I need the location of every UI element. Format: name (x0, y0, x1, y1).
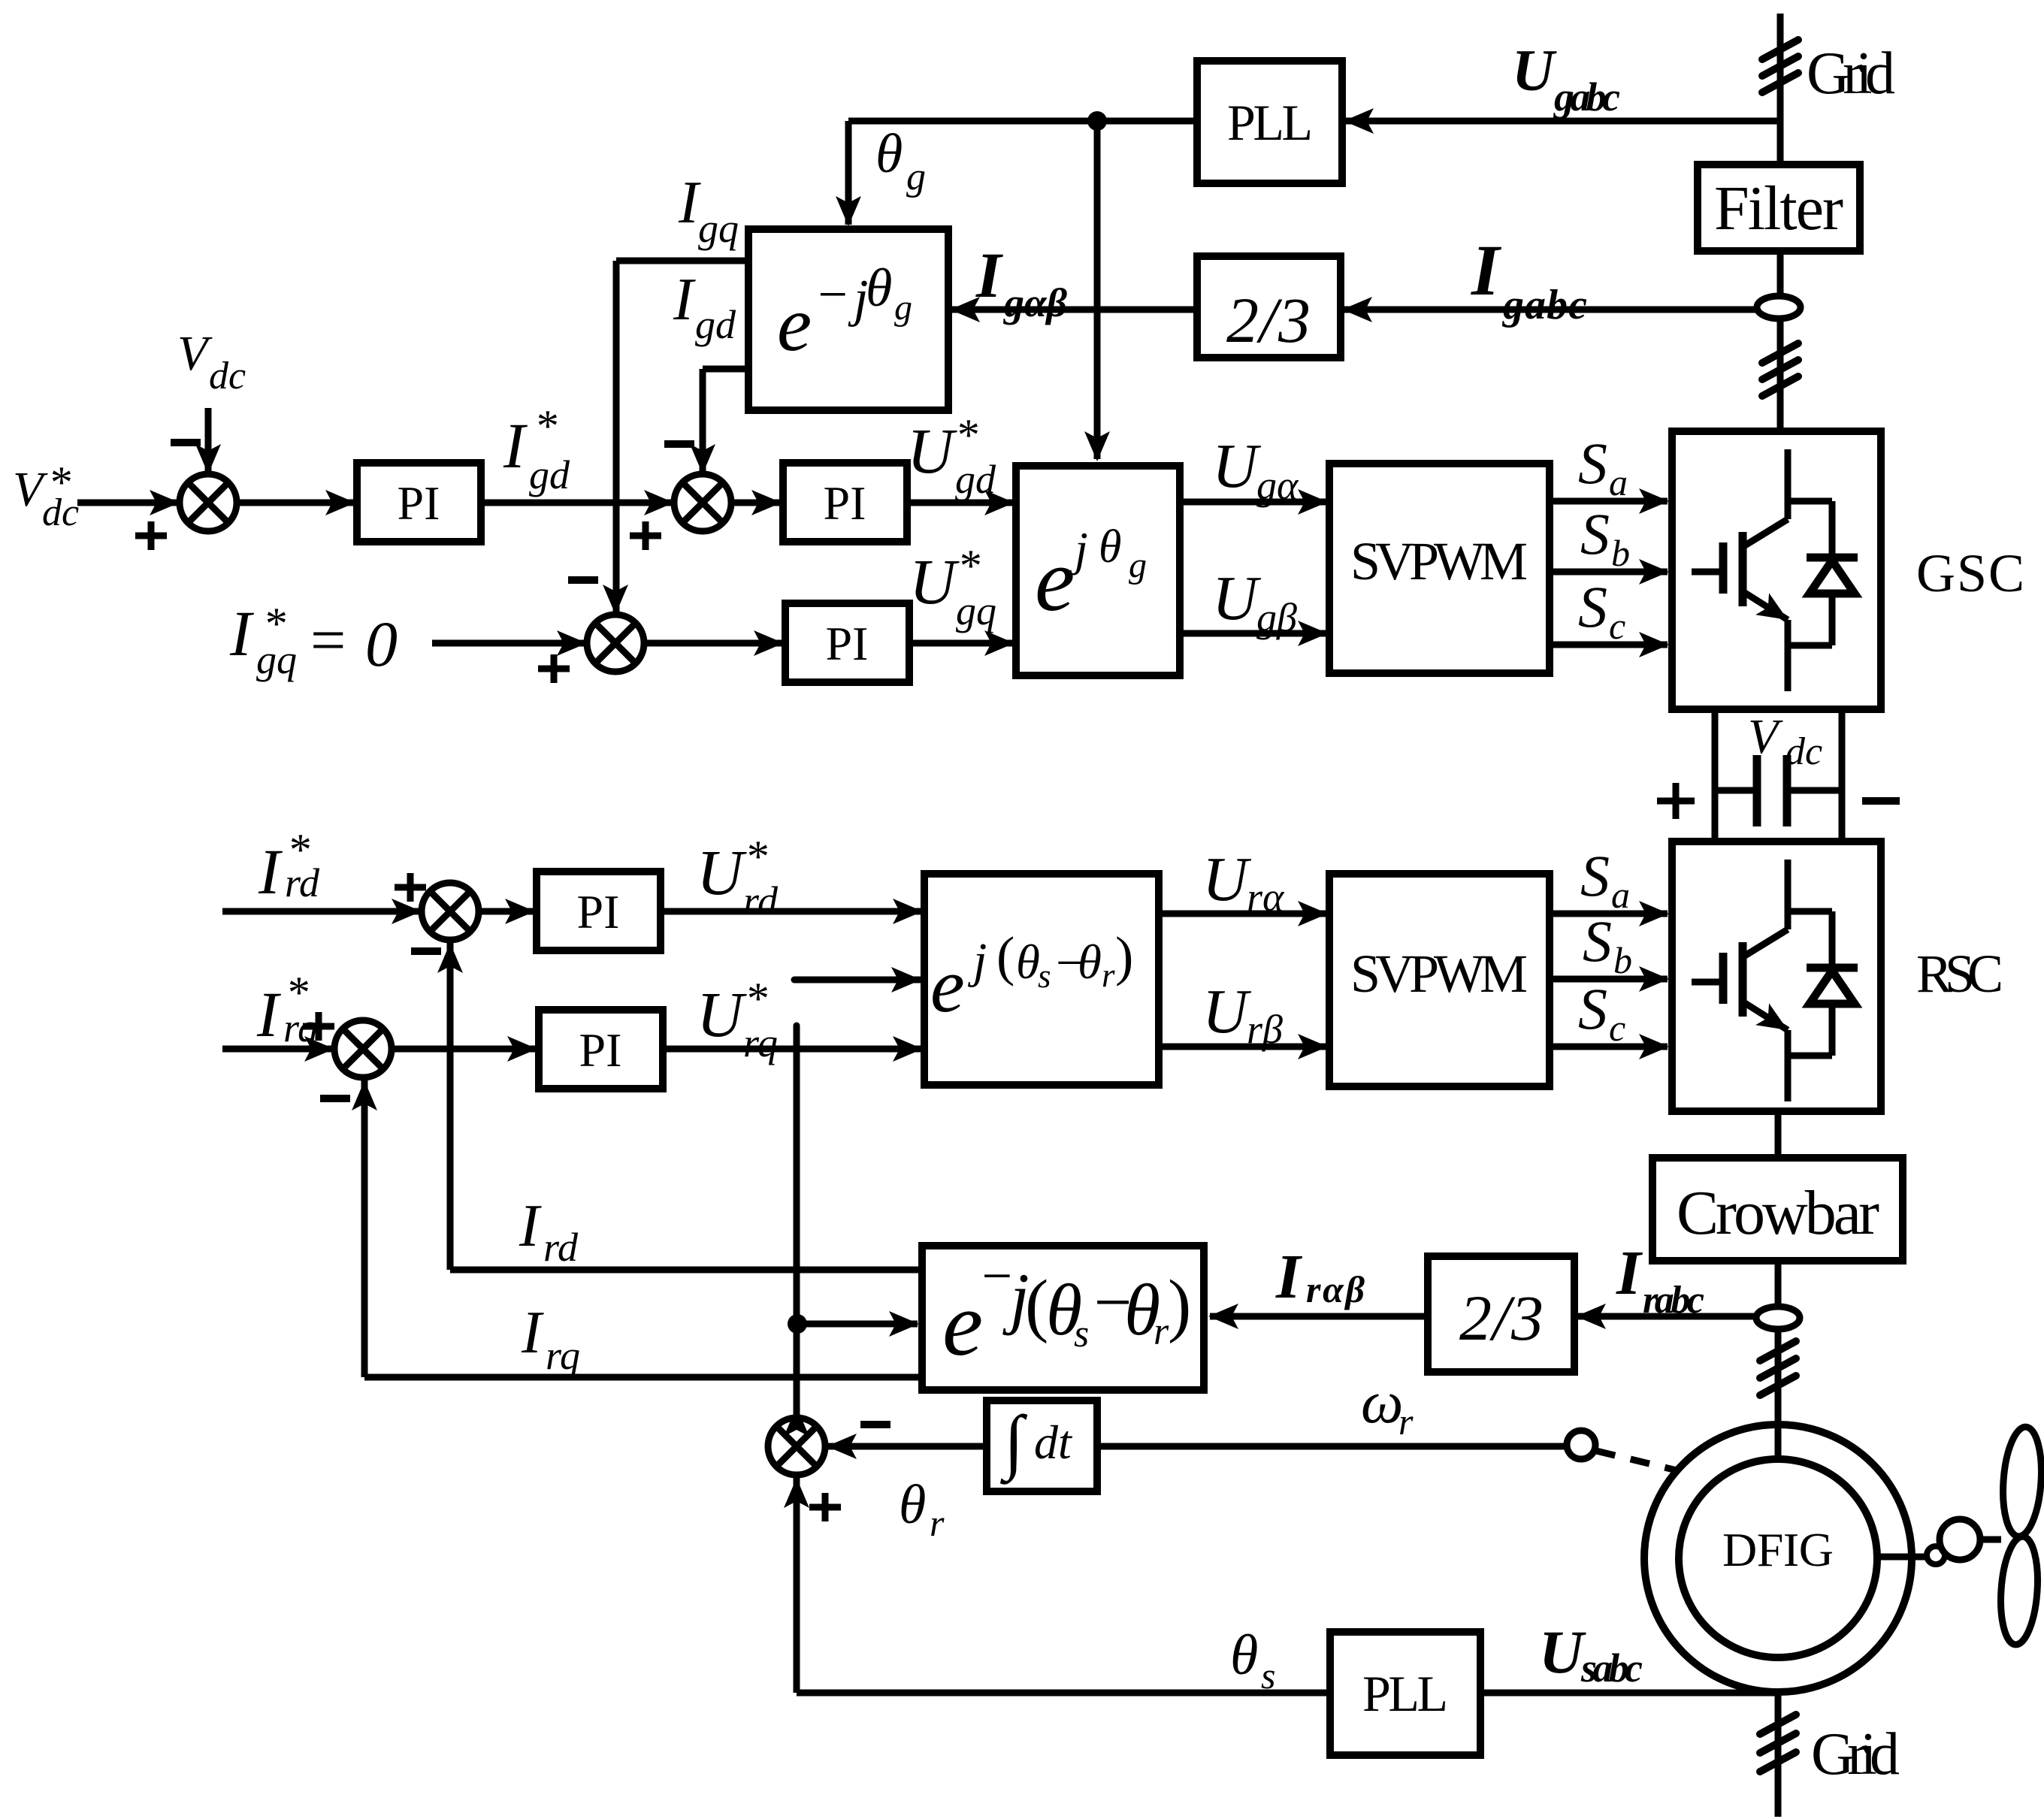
svg-text:PI: PI (577, 885, 620, 938)
wire theta_r from integrator (828, 1443, 984, 1450)
svg-text:θ: θ (875, 123, 903, 185)
arrowhead I_gq into summer (603, 585, 628, 615)
svg-text:U: U (697, 836, 747, 908)
block integrator dt (987, 1401, 1097, 1491)
svg-text:SVPWM: SVPWM (1350, 944, 1528, 1004)
three-phase slashes bottom grid (1760, 1715, 1796, 1734)
arrowhead Sa RSC (1639, 901, 1669, 926)
wire rd summer to PI4 (477, 908, 534, 915)
wire U*_rq to e^j(theta_s-theta_r) (663, 1046, 921, 1053)
svg-text:(: ( (1025, 1266, 1048, 1344)
wire U*_gd to e^jtheta_g (907, 500, 1013, 506)
block SVPWM (GSC) (1329, 464, 1550, 673)
transistor IGBT with diode (GSC) (1692, 449, 1858, 691)
minus sign theta_r (860, 1421, 890, 1428)
svg-text:b: b (1611, 532, 1630, 574)
svg-text:=: = (310, 606, 346, 675)
wire DC link right (1839, 709, 1846, 842)
arrowhead theta_g into e^-jtheta_g (836, 196, 861, 226)
plus sign at V summer (135, 521, 167, 550)
svg-text:rq: rq (546, 1333, 580, 1378)
plus sign q summer (538, 654, 570, 683)
svg-text:θ: θ (1099, 521, 1121, 573)
arrowhead into PI4 (505, 899, 535, 924)
wire I_gd stub from box (703, 366, 748, 373)
svg-text:Crowbar: Crowbar (1677, 1178, 1879, 1248)
arrowhead U_gbeta (1298, 621, 1328, 646)
svg-text:S: S (1578, 431, 1607, 496)
svg-text:S: S (1583, 908, 1612, 974)
wire Sc to RSC (1550, 1044, 1668, 1050)
wire grid bus bottom (1775, 1692, 1782, 1817)
capacitor C_dc plates (1757, 755, 1787, 826)
block e^j(theta_s-theta_r) (924, 874, 1159, 1085)
arrowhead V*_dc (150, 490, 180, 515)
svg-text:*: * (745, 832, 767, 881)
wire I_rd feedback (450, 1267, 922, 1274)
svg-text:I: I (229, 597, 254, 669)
svg-text:0: 0 (365, 608, 398, 680)
wire I_rq up to rq summer (361, 1079, 368, 1377)
block PI1 (Vdc regulator) (357, 463, 481, 542)
arrowhead theta_g into e^jtheta_g (1084, 431, 1110, 461)
block PI2 (Igd regulator) (783, 463, 907, 542)
wire I_rq feedback (364, 1374, 922, 1381)
wire PI1 to summer2 (481, 500, 673, 506)
svg-text:V: V (177, 326, 213, 381)
arrowhead theta_r into summer (827, 1434, 857, 1459)
current transducer ellipse (rotor current) (1756, 1307, 1800, 1329)
block PLL (grid) (1197, 61, 1342, 183)
wire U_ralpha (1159, 911, 1326, 917)
svg-text:PI: PI (824, 476, 866, 530)
svg-text:r: r (930, 1502, 945, 1544)
wire hub link (1980, 1536, 2001, 1543)
wire theta stub into e^-j box (797, 1321, 918, 1328)
wire U*_rd to e^j(theta_s-theta_r) (661, 908, 921, 915)
wire U_rbeta (1159, 1044, 1326, 1050)
wire theta_g down into e^-j (845, 121, 852, 225)
svg-text:*: * (955, 410, 978, 460)
svg-text:Filter: Filter (1714, 174, 1843, 243)
svg-text:RSC: RSC (1916, 944, 2003, 1004)
wire Sb to GSC (1550, 569, 1668, 576)
junction theta into e^-j (788, 1314, 807, 1334)
wire I_rabc to 2/3 (1577, 1313, 1756, 1320)
plus sign DC link (1657, 783, 1695, 819)
minus sign q summer (568, 576, 598, 584)
svg-text:dc: dc (1785, 730, 1822, 773)
svg-text:I: I (1275, 1242, 1303, 1312)
svg-text:e: e (930, 943, 965, 1029)
svg-text:U: U (909, 545, 960, 618)
svg-text:gabc: gabc (1501, 282, 1587, 328)
arrowhead U*_gd (984, 490, 1014, 515)
svg-text:PI: PI (579, 1023, 622, 1077)
speed sensor circle (1567, 1431, 1595, 1459)
wire U_galpha (1180, 499, 1326, 506)
svg-text:I: I (673, 267, 696, 333)
arrowhead I_ralphabeta (1208, 1304, 1238, 1329)
svg-text:sabc: sabc (1580, 1645, 1643, 1691)
wire summer to PI1 (237, 500, 354, 506)
wire V_dc into summer from top (205, 408, 212, 473)
current transducer ellipse (grid current) (1757, 296, 1801, 319)
svg-text:θ: θ (899, 1474, 926, 1536)
svg-text:rd: rd (743, 878, 779, 923)
svg-text:−: − (815, 266, 850, 324)
svg-text:gq: gq (956, 588, 996, 633)
svg-text:I: I (1471, 230, 1502, 310)
svg-text:PI: PI (826, 617, 869, 670)
svg-text:θ: θ (1016, 935, 1040, 990)
wire theta_s up into summer (794, 1476, 800, 1693)
summer q-axis current (587, 615, 644, 672)
wire I_gq stub from box (616, 258, 748, 264)
svg-text:gα: gα (1256, 463, 1299, 508)
block e^-j(theta_s-theta_r) (922, 1246, 1204, 1390)
svg-text:2/3: 2/3 (1226, 284, 1311, 356)
svg-text:θ: θ (1078, 935, 1102, 990)
arrowhead I_rabc (1576, 1304, 1606, 1329)
block PI3 (Igq regulator) (785, 603, 909, 682)
wire shaft DFIG to gearbox (1877, 1554, 1926, 1561)
arrowhead into 2/3 box (1342, 297, 1372, 322)
block Crowbar (1652, 1158, 1903, 1261)
svg-text:dt: dt (1034, 1416, 1073, 1469)
wire Sb to RSC (1550, 976, 1668, 983)
plus sign at summer2 (630, 521, 661, 550)
plus sign rd summer (395, 873, 426, 902)
svg-text:PLL: PLL (1227, 94, 1313, 151)
block 2/3 (rotor currents) (1428, 1256, 1574, 1372)
svg-text:a: a (1611, 874, 1630, 916)
wire q summer to PI3 (644, 640, 782, 647)
svg-text:gd: gd (695, 302, 736, 347)
block GSC converter (1672, 431, 1881, 709)
summer rd-axis current (422, 883, 479, 940)
wire I_gabc transducer to 2/3 (1344, 307, 1779, 313)
summer d-axis current (674, 474, 731, 531)
svg-text:c: c (1609, 1007, 1625, 1049)
svg-text:2/3: 2/3 (1459, 1282, 1544, 1354)
wire theta_s from PLL (797, 1690, 1330, 1697)
svg-text:gβ: gβ (1256, 595, 1297, 640)
wind turbine blade lower (1997, 1536, 2041, 1646)
svg-text:SVPWM: SVPWM (1350, 531, 1528, 591)
arrowhead into PI5 (507, 1036, 537, 1062)
wire omega_r from speed sensor (1097, 1443, 1567, 1450)
svg-text:U: U (1512, 38, 1557, 103)
svg-text:DFIG: DFIG (1722, 1523, 1834, 1576)
wire to capacitor left plate (1715, 787, 1757, 794)
svg-text:s: s (1074, 1313, 1089, 1355)
wire Sc to GSC (1550, 642, 1668, 648)
svg-text:g: g (894, 288, 912, 328)
svg-text:dc: dc (42, 491, 79, 534)
svg-text:r: r (1154, 1310, 1169, 1353)
arrowhead Sc (1639, 632, 1669, 657)
arrowhead into summer2 (644, 490, 674, 515)
arrowhead I*_rd (392, 899, 422, 924)
wire U_gabc grid to PLL (1345, 118, 1780, 125)
arrowhead I_rd into summer (437, 943, 463, 973)
block 2/3 (grid currents) (1197, 256, 1341, 358)
svg-text:b: b (1613, 939, 1632, 981)
dashed link sensor to DFIG shaft (1596, 1451, 1714, 1479)
svg-text:e: e (1035, 530, 1075, 630)
svg-text:rabc: rabc (1643, 1279, 1704, 1322)
svg-text:e: e (777, 281, 812, 367)
svg-text:r: r (1102, 956, 1115, 994)
svg-text:I: I (258, 835, 283, 908)
three-phase slashes above GSC (1762, 343, 1798, 363)
transistor IGBT with diode (RSC) (1692, 860, 1858, 1101)
svg-text:rq: rq (743, 1020, 778, 1065)
wire Crowbar to DFIG rotor (1775, 1261, 1782, 1459)
svg-text:c: c (1609, 605, 1625, 647)
svg-text:gabc: gabc (1553, 74, 1620, 119)
wire theta angle stub into e^j(theta_s-theta_r) (794, 977, 920, 984)
svg-text:V: V (1748, 709, 1783, 764)
wire I_gq down to q summer (613, 261, 620, 613)
wire U*_gq to e^jtheta_g (909, 640, 1013, 647)
svg-text:rβ: rβ (1247, 1007, 1283, 1052)
svg-text:U: U (1539, 1618, 1586, 1686)
arrowhead theta_s into summer (784, 1478, 809, 1508)
svg-text:I: I (519, 1193, 542, 1259)
arrowhead U*_rd (893, 899, 923, 924)
block PLL (stator) (1330, 1632, 1480, 1755)
arrowhead Sb RSC (1639, 966, 1669, 992)
gearbox large circle (1940, 1519, 1980, 1560)
wire DC link left (1712, 709, 1719, 842)
arrowhead U_ralpha (1298, 901, 1328, 926)
arrowhead theta into e^j (891, 967, 921, 993)
block e^jtheta_g (inverse park grid) (1016, 466, 1180, 675)
wire grid bus top (to GSC) (1777, 14, 1784, 431)
minus sign V_dc (171, 439, 201, 446)
wire rq summer to PI5 (392, 1046, 536, 1053)
arrowhead U_rbeta (1298, 1034, 1328, 1059)
svg-text:rαβ: rαβ (1306, 1268, 1365, 1310)
arrowhead into PI2 (751, 490, 782, 515)
wire I*_rq into rq summer (222, 1046, 333, 1053)
wire U_gbeta (1180, 630, 1326, 637)
wire Sa to RSC (1550, 911, 1668, 917)
arrowhead V_dc (195, 444, 221, 474)
svg-text:I: I (521, 1300, 544, 1366)
svg-text:r: r (1398, 1401, 1414, 1443)
arrowhead U*_rq (893, 1036, 923, 1062)
machine DFIG rotor circle (1679, 1459, 1877, 1657)
block SVPWM (RSC) (1329, 874, 1550, 1086)
minus sign DC link (1862, 797, 1900, 805)
minus sign rd summer (411, 947, 441, 955)
svg-text:θ: θ (1230, 1624, 1258, 1687)
arrowhead I*_rq (304, 1036, 334, 1062)
svg-text:*: * (534, 401, 557, 451)
minus sign at summer2 (664, 440, 694, 448)
svg-text:U: U (1212, 564, 1262, 633)
block PI4 (Ird regulator) (537, 872, 661, 950)
svg-text:gq: gq (698, 206, 739, 251)
svg-text:s: s (1038, 957, 1051, 995)
summer V_dc loop (180, 474, 237, 531)
svg-text:I: I (256, 978, 281, 1050)
svg-text:rd: rd (543, 1225, 579, 1270)
svg-text:dc: dc (209, 355, 246, 397)
block RSC converter (1672, 842, 1881, 1111)
wire U_sabc to PLL (1483, 1690, 1778, 1697)
wire I_gd down to d summer (700, 369, 706, 473)
summer rq-axis current (334, 1020, 392, 1077)
svg-text:U: U (1202, 845, 1252, 914)
arrowhead I_galphabeta (950, 297, 980, 322)
svg-text:g: g (906, 156, 926, 198)
wire V*_dc into summer (77, 500, 178, 506)
svg-text:θ: θ (866, 258, 892, 318)
arrowhead Sc RSC (1639, 1034, 1669, 1059)
arrowhead direction up on theta line (784, 1407, 809, 1437)
svg-text:): ) (1168, 1266, 1191, 1344)
three-phase slashes top grid (1762, 40, 1798, 59)
svg-text:rα: rα (1247, 875, 1285, 920)
svg-text:S: S (1580, 501, 1610, 567)
three-phase slashes rotor (1760, 1341, 1796, 1361)
wire theta_g from PLL to corner (848, 118, 1197, 125)
wire summer2 to PI2 (731, 500, 780, 506)
wire RSC to Crowbar (1775, 1111, 1782, 1158)
svg-text:rd: rd (285, 860, 320, 905)
arrowhead I*_gq (557, 630, 587, 656)
arrowhead into PI3 (754, 630, 784, 656)
arrowhead U_galpha (1298, 489, 1328, 515)
machine DFIG stator circle (1644, 1425, 1912, 1692)
wire I*_gq into q summer (432, 640, 585, 647)
svg-text:U: U (907, 415, 957, 487)
gearbox small circle (1927, 1546, 1945, 1564)
svg-text:Grid: Grid (1807, 41, 1895, 107)
wind turbine blade upper (2000, 1425, 2044, 1537)
wire I_ralphabeta to e^-j (1210, 1313, 1428, 1320)
svg-text:U: U (697, 978, 747, 1050)
arrowhead into PLL (1344, 108, 1374, 134)
svg-text:S: S (1578, 976, 1607, 1041)
svg-text:I: I (975, 239, 1003, 311)
arrowhead U*_gq (984, 630, 1014, 656)
arrowhead into PI1 (325, 490, 355, 515)
svg-text:GSC: GSC (1916, 543, 2024, 603)
arrowhead I_rq into summer (352, 1080, 377, 1110)
svg-text:s: s (1261, 1654, 1275, 1697)
svg-text:a: a (1609, 461, 1628, 503)
svg-text:g: g (1129, 545, 1147, 585)
arrowhead Sa (1639, 488, 1669, 514)
svg-text:U: U (1212, 431, 1262, 501)
svg-text:gq: gq (256, 637, 297, 682)
svg-text:gd: gd (529, 452, 570, 497)
rotor wire re-draw over circles (1775, 1425, 1782, 1459)
wire I_galphabeta 2/3 to e^-j (951, 307, 1197, 313)
wire I_rd up to rd summer (447, 941, 454, 1270)
block Filter (1698, 165, 1860, 251)
wire I*_rd into rd summer (222, 908, 420, 915)
svg-text:*: * (957, 541, 980, 591)
wire theta_s-theta_r vertical from summer (794, 1026, 800, 1418)
svg-text:U: U (1202, 977, 1252, 1047)
svg-text:S: S (1578, 574, 1607, 639)
svg-text:ω: ω (1361, 1370, 1403, 1436)
svg-text:*: * (745, 974, 767, 1023)
block e^-jtheta_g (park transform grid) (748, 229, 948, 410)
minus sign rq summer (320, 1095, 350, 1102)
wire theta_g down into e^+j (1094, 121, 1101, 459)
svg-text:(: ( (996, 926, 1014, 987)
svg-text:e: e (942, 1274, 983, 1375)
svg-text:Grid: Grid (1811, 1721, 1900, 1787)
plus sign theta_s (809, 1493, 841, 1521)
svg-text:S: S (1580, 843, 1610, 908)
plus sign rq summer (303, 1012, 334, 1041)
svg-text:PLL: PLL (1362, 1665, 1448, 1722)
svg-text:I: I (503, 409, 528, 482)
svg-text:): ) (1115, 926, 1133, 987)
arrowhead Sb (1639, 559, 1669, 585)
wire to capacitor right plate (1787, 787, 1842, 794)
block PI5 (Irq regulator) (539, 1010, 663, 1089)
svg-text:PI: PI (398, 476, 440, 530)
wire Sa to GSC (1550, 498, 1668, 505)
svg-text:I: I (1616, 1238, 1643, 1308)
junction theta_g node (1087, 111, 1107, 131)
arrowhead I_gd into summer (690, 444, 715, 474)
svg-text:gαβ: gαβ (1003, 280, 1067, 325)
summer theta_s minus theta_r (768, 1418, 825, 1475)
arrowhead theta into e^-j (889, 1311, 919, 1337)
